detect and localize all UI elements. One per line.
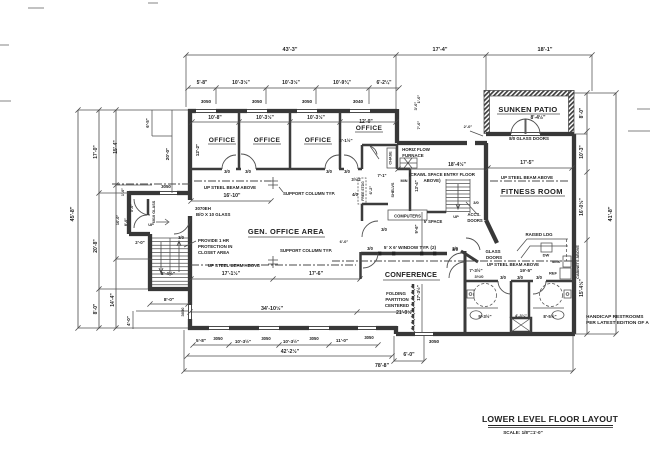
svg-text:UP STEEL BEAM ABOVE: UP STEEL BEAM ABOVE bbox=[487, 262, 539, 267]
svg-text:16'-10": 16'-10" bbox=[224, 193, 242, 199]
45-8 overall bbox=[77, 110, 79, 328]
svg-text:PARTITION: PARTITION bbox=[385, 297, 408, 302]
scan artifact marks bbox=[28, 7, 44, 9]
svg-text:CENTERED: CENTERED bbox=[385, 303, 409, 308]
free standing shelves bbox=[358, 178, 366, 204]
svg-text:3/0: 3/0 bbox=[224, 169, 230, 174]
sunken patio walls bbox=[484, 91, 574, 97]
beam 1 bbox=[194, 180, 271, 182]
crawl space north wall bbox=[397, 141, 467, 145]
svg-text:42'-2½": 42'-2½" bbox=[281, 348, 300, 355]
svg-text:10'-8": 10'-8" bbox=[208, 115, 222, 121]
svg-text:15'-4": 15'-4" bbox=[113, 140, 119, 154]
svg-text:10'-3½": 10'-3½" bbox=[307, 114, 325, 121]
svg-text:UP: UP bbox=[453, 214, 459, 219]
svg-text:20'-0": 20'-0" bbox=[165, 148, 170, 160]
svg-text:COMPUTERS: COMPUTERS bbox=[394, 214, 421, 219]
north wall with window gaps bbox=[188, 109, 196, 113]
svg-text:8/0 GLASS DOORS: 8/0 GLASS DOORS bbox=[509, 136, 549, 141]
svg-text:5'-0": 5'-0" bbox=[130, 204, 134, 212]
svg-text:6'-2¼": 6'-2¼" bbox=[377, 79, 393, 86]
beam 2 bbox=[191, 264, 356, 266]
small verticals bbox=[151, 110, 153, 136]
vestibule doors bbox=[134, 199, 150, 215]
svg-text:PROVIDE 1 HR: PROVIDE 1 HR bbox=[198, 238, 230, 243]
svg-text:7'-1": 7'-1" bbox=[377, 173, 386, 178]
svg-text:3/0: 3/0 bbox=[452, 246, 458, 251]
svg-text:5' X 6' WINDOW TYP. (2): 5' X 6' WINDOW TYP. (2) bbox=[384, 245, 437, 250]
svg-text:B/O X 10 GLASS: B/O X 10 GLASS bbox=[196, 212, 230, 217]
dimension line 43-3 / 17-4 / 18-1 bbox=[186, 54, 592, 56]
svg-text:8'-5½": 8'-5½" bbox=[543, 314, 556, 319]
svg-text:43'-3": 43'-3" bbox=[283, 47, 298, 53]
svg-text:41'-8": 41'-8" bbox=[608, 206, 614, 221]
svg-text:10'-3½": 10'-3½" bbox=[256, 114, 274, 121]
svg-text:3/0: 3/0 bbox=[536, 275, 542, 280]
office4 south wall bbox=[361, 145, 364, 169]
svg-text:13'-4": 13'-4" bbox=[414, 180, 419, 191]
42-2.5 bbox=[187, 355, 392, 357]
svg-text:OFFICE: OFFICE bbox=[254, 137, 281, 144]
svg-text:OFFICE: OFFICE bbox=[305, 137, 332, 144]
svg-text:CONFERENCE: CONFERENCE bbox=[385, 270, 437, 279]
svg-text:3050: 3050 bbox=[261, 336, 271, 341]
glass doors entry diagonal bbox=[461, 251, 478, 262]
svg-text:12'-2": 12'-2" bbox=[195, 144, 200, 156]
svg-text:3/0: 3/0 bbox=[178, 235, 184, 240]
svg-text:18'-4½": 18'-4½" bbox=[448, 161, 466, 168]
svg-text:SUNKEN PATIO: SUNKEN PATIO bbox=[498, 105, 557, 114]
east wall fitness room bbox=[572, 134, 576, 334]
office doors arcs bbox=[222, 155, 236, 169]
svg-text:3050: 3050 bbox=[180, 307, 185, 317]
svg-text:OFFICE: OFFICE bbox=[209, 137, 236, 144]
svg-text:GEN. OFFICE AREA: GEN. OFFICE AREA bbox=[248, 227, 325, 236]
svg-text:5'-8": 5'-8" bbox=[196, 338, 206, 343]
svg-text:9'-6": 9'-6" bbox=[414, 224, 419, 233]
svg-text:UP STEEL BEAM ABOVE: UP STEEL BEAM ABOVE bbox=[204, 185, 256, 190]
svg-text:3040: 3040 bbox=[353, 99, 364, 104]
svg-text:10'-3": 10'-3" bbox=[579, 145, 585, 159]
computers box bbox=[388, 210, 427, 220]
svg-text:78'-8": 78'-8" bbox=[375, 363, 390, 369]
svg-text:(CRAWL SPACE ENTRY FLOOR: (CRAWL SPACE ENTRY FLOOR bbox=[409, 172, 476, 177]
patio south wall w/ glass doors bbox=[486, 132, 511, 136]
svg-text:14'-4": 14'-4" bbox=[110, 293, 116, 307]
svg-text:3050: 3050 bbox=[161, 184, 171, 189]
svg-text:8'-0": 8'-0" bbox=[124, 218, 128, 226]
svg-text:45'-8": 45'-8" bbox=[70, 206, 76, 221]
svg-text:MIN: MIN bbox=[401, 179, 408, 183]
restroom mid walls bbox=[510, 281, 513, 318]
svg-text:8'-4½": 8'-4½" bbox=[161, 270, 175, 277]
svg-text:CABINETS ABOVE: CABINETS ABOVE bbox=[576, 245, 580, 279]
support column 1 bbox=[268, 177, 278, 189]
stair door bbox=[174, 218, 190, 234]
svg-text:PROTECTION IN: PROTECTION IN bbox=[198, 244, 232, 249]
conference doors bbox=[363, 253, 378, 268]
svg-text:UP STEEL BEAM ABOVE: UP STEEL BEAM ABOVE bbox=[501, 175, 553, 180]
svg-text:10'-9¾": 10'-9¾" bbox=[333, 79, 351, 86]
office4 east wall step bbox=[395, 109, 399, 143]
svg-text:HORIZ FLOW: HORIZ FLOW bbox=[402, 147, 431, 152]
svg-text:17'-5": 17'-5" bbox=[520, 160, 534, 166]
fitness west wall bbox=[484, 143, 488, 220]
svg-text:3/0: 3/0 bbox=[500, 275, 506, 280]
svg-text:SHELVS: SHELVS bbox=[391, 182, 395, 197]
svg-text:FOLDING: FOLDING bbox=[386, 291, 406, 296]
svg-text:DOORS: DOORS bbox=[486, 255, 502, 260]
window wall bbox=[361, 252, 447, 255]
8-0 dim below stairs bbox=[150, 303, 188, 305]
svg-text:10'-3½": 10'-3½" bbox=[283, 338, 299, 344]
svg-text:SCALE: 1/8"=1'-0": SCALE: 1/8"=1'-0" bbox=[503, 430, 543, 435]
access doors diagonal wall bbox=[466, 202, 477, 214]
svg-text:DW: DW bbox=[543, 253, 550, 258]
svg-text:34'-10½": 34'-10½" bbox=[261, 305, 284, 312]
folding partition bbox=[412, 284, 415, 334]
south wall conference/restrooms bbox=[396, 332, 415, 336]
svg-text:ABOVE): ABOVE) bbox=[423, 178, 441, 183]
svg-text:3/0: 3/0 bbox=[473, 200, 479, 205]
west wall bbox=[188, 109, 192, 200]
svg-text:SUPPORT COLUMN TYP.: SUPPORT COLUMN TYP. bbox=[280, 248, 332, 253]
svg-text:16'-0½": 16'-0½" bbox=[578, 198, 585, 216]
office partitions bbox=[238, 112, 241, 169]
svg-text:10'-3½": 10'-3½" bbox=[235, 338, 251, 344]
svg-text:17'-1½": 17'-1½" bbox=[222, 270, 241, 277]
78-8 bbox=[184, 370, 573, 372]
svg-text:8'-0": 8'-0" bbox=[164, 297, 174, 303]
vestibule dashdot bbox=[112, 183, 190, 185]
svg-text:6'-5": 6'-5" bbox=[145, 118, 150, 127]
svg-text:HANDICAP RESTROOMS: HANDICAP RESTROOMS bbox=[586, 314, 644, 320]
svg-text:3050: 3050 bbox=[302, 99, 313, 104]
x=116 line bbox=[115, 110, 117, 328]
patio double doors bbox=[511, 119, 526, 134]
svg-text:17'-0": 17'-0" bbox=[93, 145, 99, 159]
svg-text:10'-3½": 10'-3½" bbox=[282, 79, 300, 86]
svg-text:3050: 3050 bbox=[252, 99, 263, 104]
svg-text:21'-9½": 21'-9½" bbox=[396, 309, 414, 316]
svg-text:9'-3½": 9'-3½" bbox=[478, 314, 491, 319]
svg-text:FURNACE: FURNACE bbox=[402, 153, 424, 158]
svg-text:3050: 3050 bbox=[201, 99, 212, 104]
svg-text:3/0: 3/0 bbox=[326, 169, 332, 174]
svg-text:UP STEEL BEAM ABOVE: UP STEEL BEAM ABOVE bbox=[208, 263, 260, 268]
svg-text:3'-1½": 3'-1½" bbox=[339, 138, 352, 143]
svg-text:3070EH: 3070EH bbox=[195, 206, 211, 211]
svg-text:2'-0": 2'-0" bbox=[135, 240, 144, 245]
south wall gen office with windows bbox=[188, 326, 209, 330]
svg-text:3050: 3050 bbox=[364, 335, 374, 340]
toilets dashed circles bbox=[474, 284, 497, 307]
svg-text:6'-2": 6'-2" bbox=[368, 186, 373, 195]
6-0 bbox=[394, 360, 424, 362]
restroom door arcs bbox=[498, 281, 511, 294]
svg-text:7'-0": 7'-0" bbox=[416, 121, 421, 130]
restroom top wall bbox=[465, 280, 575, 283]
svg-text:20'-8": 20'-8" bbox=[93, 239, 99, 253]
dim 34-10.5 above south wall bbox=[190, 311, 412, 313]
svg-text:17'-3½": 17'-3½" bbox=[416, 285, 421, 301]
bottom dim row bbox=[193, 344, 378, 346]
dashdot bbox=[332, 260, 466, 262]
svg-text:10'-3½": 10'-3½" bbox=[232, 79, 250, 86]
svg-text:LOWER LEVEL FLOOR LAYOUT: LOWER LEVEL FLOOR LAYOUT bbox=[482, 414, 619, 424]
svg-text:3/0: 3/0 bbox=[344, 169, 350, 174]
svg-text:17'-6": 17'-6" bbox=[309, 271, 324, 277]
svg-text:DOORS: DOORS bbox=[467, 218, 483, 223]
svg-text:4'-0": 4'-0" bbox=[126, 316, 131, 326]
office front wall bbox=[190, 168, 222, 171]
svg-text:8'-0": 8'-0" bbox=[579, 107, 585, 118]
svg-text:CLOSET AREA: CLOSET AREA bbox=[198, 250, 230, 255]
svg-text:3'-0": 3'-0" bbox=[413, 102, 418, 111]
svg-text:4/0: 4/0 bbox=[352, 192, 358, 197]
chase box bbox=[387, 148, 396, 168]
svg-text:3/0: 3/0 bbox=[517, 275, 523, 280]
svg-text:7'-3½": 7'-3½" bbox=[469, 268, 482, 273]
svg-text:11'-0": 11'-0" bbox=[336, 338, 348, 343]
restroom west wall bbox=[464, 251, 467, 334]
svg-text:8'-0": 8'-0" bbox=[93, 303, 99, 314]
svg-text:16'-0": 16'-0" bbox=[116, 215, 120, 226]
wall piece below bbox=[361, 204, 364, 221]
svg-text:3½/0: 3½/0 bbox=[475, 274, 485, 279]
office inner dim row bbox=[192, 121, 396, 123]
main stairs bbox=[152, 237, 188, 239]
svg-text:4'-3¼": 4'-3¼" bbox=[515, 313, 527, 318]
conference NW corner wall bbox=[359, 252, 362, 279]
x=99 line bbox=[98, 110, 100, 328]
svg-text:3/0: 3/0 bbox=[381, 227, 387, 232]
svg-text:3050: 3050 bbox=[213, 336, 223, 341]
svg-text:RAISED LDG: RAISED LDG bbox=[525, 232, 553, 237]
svg-text:1'-0": 1'-0" bbox=[121, 188, 125, 196]
sinks bbox=[467, 307, 564, 309]
svg-text:REF: REF bbox=[549, 271, 558, 276]
svg-text:3½/2: 3½/2 bbox=[351, 177, 361, 182]
dimension row 5-8 / 10-3.5 etc bbox=[188, 87, 399, 89]
svg-text:UP: UP bbox=[148, 222, 154, 227]
svg-text:15'-4½": 15'-4½" bbox=[578, 279, 585, 297]
entry door arc bbox=[449, 262, 465, 278]
svg-text:6'-0": 6'-0" bbox=[403, 352, 415, 358]
svg-text:PER LATEST EDITION OF A: PER LATEST EDITION OF A bbox=[586, 320, 649, 326]
svg-text:3050: 3050 bbox=[309, 336, 319, 341]
svg-text:18'-1": 18'-1" bbox=[538, 47, 553, 53]
svg-text:3/0: 3/0 bbox=[245, 169, 251, 174]
svg-text:5'-8": 5'-8" bbox=[197, 80, 208, 86]
crawl stairs bbox=[446, 179, 470, 213]
svg-text:CHASE: CHASE bbox=[389, 151, 393, 165]
shower box bbox=[511, 318, 531, 332]
svg-text:FREE STDG: FREE STDG bbox=[361, 181, 365, 201]
svg-text:8'-4½": 8'-4½" bbox=[531, 114, 547, 121]
svg-text:3050: 3050 bbox=[429, 339, 440, 344]
svg-text:OFFICE: OFFICE bbox=[356, 125, 383, 132]
south wall jog at entry bbox=[394, 326, 398, 334]
svg-text:2'-0": 2'-0" bbox=[464, 124, 473, 129]
svg-text:SUPPORT COLUMN TYP.: SUPPORT COLUMN TYP. bbox=[283, 191, 335, 196]
svg-text:19'-5": 19'-5" bbox=[520, 268, 532, 273]
svg-text:FITNESS ROOM: FITNESS ROOM bbox=[501, 187, 563, 196]
svg-text:GLASS: GLASS bbox=[485, 249, 500, 254]
svg-text:17'-4": 17'-4" bbox=[433, 47, 448, 53]
svg-text:3/0: 3/0 bbox=[367, 246, 373, 251]
stair protrusion walls bbox=[129, 191, 160, 195]
svg-text:5' SPACE: 5' SPACE bbox=[424, 219, 443, 224]
svg-text:6'-0": 6'-0" bbox=[340, 239, 349, 244]
svg-text:6010 GLASS: 6010 GLASS bbox=[152, 200, 156, 223]
kitchen bbox=[541, 243, 552, 252]
svg-text:ACCS.: ACCS. bbox=[467, 212, 480, 217]
